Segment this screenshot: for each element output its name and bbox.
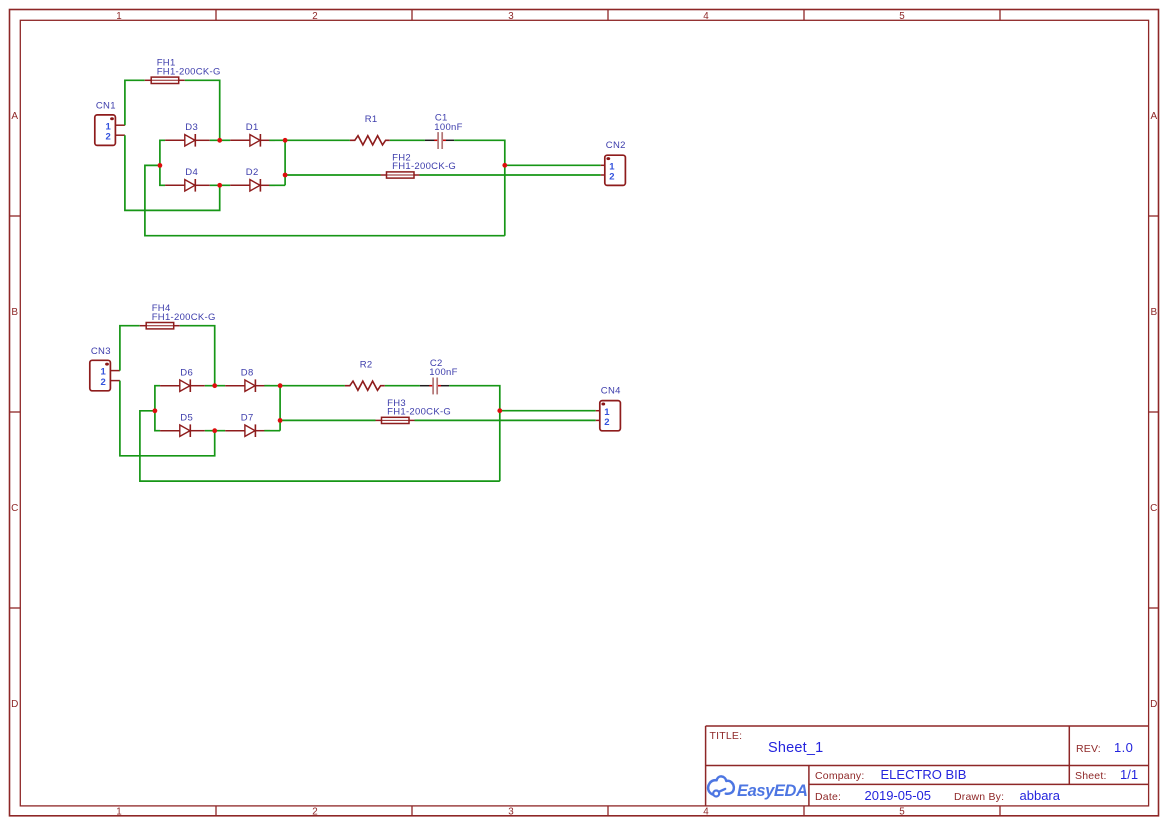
connector CN4 [596,401,621,431]
svg-text:Date:: Date: [815,791,841,803]
junction [497,408,502,413]
svg-text:C: C [1150,503,1157,514]
svg-text:CN3: CN3 [91,346,111,357]
junction [283,173,288,178]
wire [269,139,285,141]
svg-text:FH1-200CK-G: FH1-200CK-G [387,406,451,417]
wire [145,165,505,235]
svg-text:Company:: Company: [815,770,864,782]
svg-text:1: 1 [116,11,121,22]
capacitor C2 [420,378,449,395]
wire [269,184,285,186]
resistor R2 [345,381,385,390]
svg-text:2: 2 [312,807,317,818]
junction [212,383,217,388]
svg-text:4: 4 [703,11,709,22]
svg-text:CN2: CN2 [606,140,626,151]
svg-text:CN1: CN1 [96,101,116,112]
svg-text:2: 2 [106,132,112,143]
connector CN1 [95,115,125,145]
svg-text:D3: D3 [185,122,198,133]
wire [264,430,280,432]
diode D8 [225,379,270,392]
svg-text:2: 2 [609,171,615,182]
wire [210,139,230,141]
diode D4 [165,179,210,192]
wire [285,139,350,141]
svg-text:C: C [11,503,18,514]
diode D2 [230,179,275,192]
svg-text:EasyEDA: EasyEDA [737,782,808,800]
junction [212,428,217,433]
fuse FH4 [140,323,180,329]
svg-text:D7: D7 [241,412,254,423]
junction [158,163,163,168]
EasyEDA logo [708,776,807,800]
svg-text:A: A [11,111,18,122]
wire [500,410,596,412]
svg-text:CN4: CN4 [601,386,621,397]
svg-text:3: 3 [508,807,514,818]
wire [120,381,215,456]
wire [420,174,601,176]
diode D1 [230,134,275,147]
svg-text:Sheet:: Sheet: [1075,770,1107,782]
svg-text:REV:: REV: [1076,743,1101,755]
wire [390,139,425,141]
svg-text:1: 1 [116,807,121,818]
svg-text:ELECTRO BIB: ELECTRO BIB [881,767,967,782]
wire [155,386,160,431]
wire [120,326,140,371]
svg-text:FH1-200CK-G: FH1-200CK-G [152,312,216,323]
svg-text:3: 3 [508,11,514,22]
svg-text:2019-05-05: 2019-05-05 [865,788,932,803]
diode D5 [160,424,205,437]
title block [706,726,1149,806]
fuse FH3 [376,417,415,423]
svg-text:5: 5 [899,807,905,818]
junction [502,163,507,168]
svg-text:A: A [1150,111,1157,122]
svg-text:2: 2 [101,377,107,388]
wire [285,174,380,176]
svg-text:Sheet_1: Sheet_1 [768,740,823,756]
junction [217,138,222,143]
wire [125,80,145,125]
svg-text:abbara: abbara [1020,788,1061,803]
wire [210,184,230,186]
svg-text:D2: D2 [246,167,259,178]
wire [505,164,601,166]
svg-text:D: D [1150,699,1157,710]
wire [205,430,225,432]
resistor R1 [350,136,390,145]
svg-text:D5: D5 [180,412,193,423]
svg-text:100nF: 100nF [429,367,457,378]
wire [449,386,500,481]
wire [454,140,505,235]
wire [185,80,220,140]
svg-text:D: D [11,699,18,710]
fuse FH1 [145,77,185,83]
junction [217,183,222,188]
connector CN3 [90,360,120,391]
svg-text:5: 5 [899,11,905,22]
svg-text:1/1: 1/1 [1120,767,1138,782]
svg-text:Drawn By:: Drawn By: [954,791,1004,803]
svg-text:FH1-200CK-G: FH1-200CK-G [392,161,456,172]
wire [280,419,375,421]
diode D3 [165,134,210,147]
wire [385,385,420,387]
wire [280,385,345,387]
svg-text:D6: D6 [180,367,193,378]
wire [279,386,281,431]
svg-text:2: 2 [604,417,610,428]
wire [415,419,596,421]
wire [264,385,280,387]
svg-text:FH1-200CK-G: FH1-200CK-G [157,67,221,78]
wire [205,385,225,387]
wire [140,411,500,481]
junction [278,418,283,423]
svg-text:D4: D4 [185,167,198,178]
wire [125,135,220,210]
diode D7 [225,424,270,437]
svg-text:100nF: 100nF [434,122,462,133]
junction [278,383,283,388]
fuse FH2 [381,172,420,178]
connector CN2 [601,155,626,185]
svg-text:R1: R1 [365,114,378,125]
svg-text:D1: D1 [246,122,259,133]
svg-text:D8: D8 [241,367,254,378]
junction [283,138,288,143]
svg-text:B: B [11,307,18,318]
diode D6 [160,379,205,392]
wire [284,140,286,185]
svg-text:R2: R2 [360,360,373,371]
svg-text:1.0: 1.0 [1114,740,1133,755]
svg-text:TITLE:: TITLE: [710,730,743,742]
junction [153,408,158,413]
capacitor C1 [425,132,454,149]
svg-text:2: 2 [312,11,317,22]
wire [160,140,165,185]
wire [180,326,215,386]
svg-text:4: 4 [703,807,709,818]
svg-text:B: B [1150,307,1157,318]
